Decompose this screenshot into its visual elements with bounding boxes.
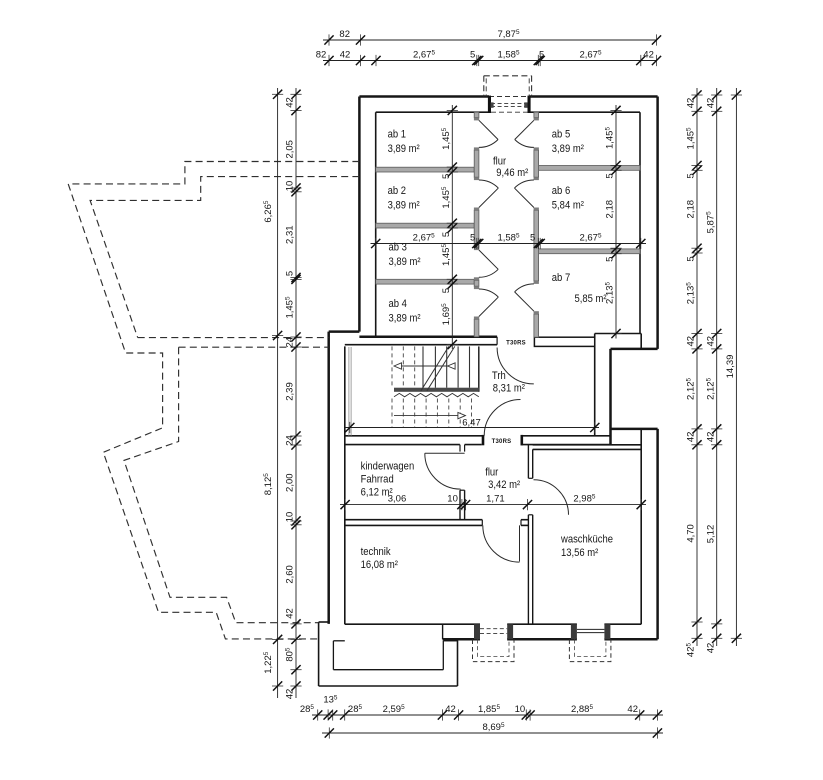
stairwell width dim line bbox=[346, 427, 600, 429]
svg-text:5: 5 bbox=[686, 173, 697, 178]
svg-text:1,585: 1,585 bbox=[497, 49, 520, 60]
wall ab1/ab2 bbox=[376, 167, 475, 172]
svg-text:3,89 m²: 3,89 m² bbox=[389, 256, 422, 268]
svg-text:5: 5 bbox=[441, 174, 452, 179]
door ab3 bbox=[479, 250, 498, 269]
notch on right side between ab7 and waschkueche bbox=[595, 333, 642, 335]
outer wall: upper block top, inner line bbox=[376, 111, 491, 113]
wall band: waschkueche top bbox=[533, 444, 642, 446]
svg-text:2,60: 2,60 bbox=[285, 565, 296, 584]
door arc: waschkueche bbox=[534, 480, 569, 515]
window opening 2 glazing lines bbox=[577, 628, 605, 630]
Trh stairwell right wall bbox=[594, 346, 596, 435]
svg-text:2,675: 2,675 bbox=[579, 232, 602, 243]
svg-text:2,885: 2,885 bbox=[571, 704, 594, 715]
entrance door jamb bars bbox=[488, 96, 491, 113]
svg-text:kinderwagen: kinderwagen bbox=[361, 461, 415, 473]
room label ab5 bbox=[552, 129, 571, 141]
svg-text:42: 42 bbox=[705, 336, 716, 347]
svg-text:285: 285 bbox=[348, 704, 363, 715]
dimension chain bottom detailed bbox=[300, 694, 663, 720]
svg-text:4,70: 4,70 bbox=[686, 524, 697, 543]
svg-text:805: 805 bbox=[285, 647, 296, 662]
svg-text:42: 42 bbox=[686, 432, 697, 443]
svg-text:42: 42 bbox=[643, 49, 654, 60]
svg-text:8,695: 8,695 bbox=[482, 722, 505, 733]
svg-text:42: 42 bbox=[686, 98, 697, 109]
corridor left wall segments bbox=[474, 112, 479, 117]
svg-text:5: 5 bbox=[539, 49, 544, 60]
svg-text:5,875: 5,875 bbox=[705, 211, 716, 234]
dimension chain right detailed bbox=[686, 88, 703, 657]
svg-text:8,125: 8,125 bbox=[263, 473, 274, 496]
corridor right wall segments bbox=[534, 112, 539, 117]
svg-text:42: 42 bbox=[686, 336, 697, 347]
dimension chain interior vertical right bbox=[605, 105, 622, 339]
outer wall: middle block left bbox=[327, 332, 330, 624]
door leaf+arc: kinderwagen bbox=[425, 452, 465, 454]
bottom outer wall: inner line bbox=[345, 623, 480, 625]
svg-text:3,89 m²: 3,89 m² bbox=[552, 143, 585, 155]
stair direction arrow down-flight bbox=[394, 415, 459, 417]
svg-text:3,89 m²: 3,89 m² bbox=[388, 200, 421, 212]
outer wall: upper block top, outer line with entrance opening bbox=[359, 95, 489, 98]
wall band: Trh top right part (outlined) bbox=[534, 337, 594, 346]
room label flur lower bbox=[485, 467, 499, 479]
svg-text:1,455: 1,455 bbox=[285, 296, 296, 319]
svg-text:3,89 m²: 3,89 m² bbox=[389, 313, 422, 325]
room label ab3 bbox=[389, 242, 408, 254]
dashed chimney shaft above entrance bbox=[484, 75, 532, 77]
svg-text:2,05: 2,05 bbox=[285, 140, 296, 159]
svg-text:5: 5 bbox=[470, 49, 475, 60]
step at stairwell top-left bbox=[329, 330, 360, 333]
svg-text:1,585: 1,585 bbox=[497, 232, 520, 243]
svg-text:42: 42 bbox=[445, 704, 456, 715]
svg-text:2,675: 2,675 bbox=[413, 232, 436, 243]
svg-text:1,455: 1,455 bbox=[686, 127, 697, 150]
svg-text:10: 10 bbox=[515, 704, 526, 715]
stoop / terrace outline bottom-left bbox=[319, 621, 329, 623]
window/door opening 1 (dashed) bbox=[480, 628, 507, 630]
svg-text:6,12 m²: 6,12 m² bbox=[361, 487, 394, 499]
outer wall: upper block right bbox=[656, 97, 659, 349]
svg-text:ab 4: ab 4 bbox=[389, 298, 408, 310]
svg-text:2,595: 2,595 bbox=[383, 704, 406, 715]
svg-text:5: 5 bbox=[605, 257, 616, 262]
svg-text:Fahrrad: Fahrrad bbox=[361, 474, 394, 486]
svg-text:ab 3: ab 3 bbox=[389, 242, 408, 254]
svg-text:13,56 m²: 13,56 m² bbox=[561, 548, 599, 560]
svg-text:5: 5 bbox=[470, 232, 475, 243]
svg-text:waschküche: waschküche bbox=[560, 534, 613, 546]
svg-text:5: 5 bbox=[441, 288, 452, 293]
dashed outline: inner face descent bbox=[124, 347, 319, 623]
svg-text:42: 42 bbox=[705, 432, 716, 443]
svg-text:42: 42 bbox=[627, 704, 638, 715]
room label ab1 bbox=[388, 129, 407, 141]
door ab2 bbox=[479, 188, 498, 207]
wall ab2/ab3 bbox=[376, 223, 475, 228]
room label kinderwagen bbox=[361, 461, 415, 473]
svg-text:10: 10 bbox=[447, 493, 458, 504]
door ab7 bbox=[515, 292, 534, 311]
dimension chain top detailed bbox=[316, 49, 661, 66]
dimension chain left detailed bbox=[285, 88, 302, 699]
svg-text:425: 425 bbox=[686, 642, 697, 657]
svg-text:82: 82 bbox=[316, 49, 327, 60]
stair upper flight solid treads bbox=[422, 346, 424, 387]
room label technik bbox=[361, 546, 392, 558]
door ab4 bbox=[479, 297, 498, 316]
svg-text:42: 42 bbox=[285, 97, 296, 108]
wall band: kinderwagen/technik bbox=[345, 519, 483, 521]
svg-text:42: 42 bbox=[705, 643, 716, 654]
svg-text:flur: flur bbox=[493, 156, 507, 168]
svg-text:2,675: 2,675 bbox=[413, 49, 436, 60]
svg-text:ab 6: ab 6 bbox=[552, 185, 571, 197]
svg-text:T30RS: T30RS bbox=[506, 340, 526, 346]
stair upper flight dashed treads bbox=[391, 346, 393, 387]
room label Trh bbox=[492, 370, 506, 382]
outer wall: upper block left bbox=[358, 97, 361, 332]
room label waschkueche bbox=[560, 534, 613, 546]
svg-text:1,455: 1,455 bbox=[441, 244, 452, 267]
svg-text:42: 42 bbox=[705, 98, 716, 109]
dimension chain left overall bbox=[263, 88, 283, 698]
stair cut diagonal pair bbox=[421, 346, 449, 390]
svg-text:24: 24 bbox=[285, 337, 296, 348]
room label flur upper bbox=[493, 156, 507, 168]
window jambs 1 bbox=[474, 624, 480, 639]
dimension chain lower rooms horizontal bbox=[340, 493, 646, 510]
room label ab7 bbox=[552, 272, 571, 284]
svg-text:5,85 m²: 5,85 m² bbox=[575, 293, 608, 305]
dashed outline lower storey, outer face bbox=[68, 162, 359, 639]
stair lower flight dashed treads bbox=[391, 399, 393, 428]
door arc: flur to Trh bbox=[497, 348, 534, 384]
svg-text:1,455: 1,455 bbox=[441, 186, 452, 209]
svg-text:2,135: 2,135 bbox=[686, 282, 697, 305]
svg-text:24: 24 bbox=[285, 435, 296, 446]
svg-text:1,855: 1,855 bbox=[478, 704, 501, 715]
window sill dashed rect 2 bbox=[569, 640, 611, 662]
svg-text:5,84 m²: 5,84 m² bbox=[552, 200, 585, 212]
svg-text:ab 2: ab 2 bbox=[388, 185, 407, 197]
svg-text:2,985: 2,985 bbox=[573, 493, 596, 504]
svg-text:2,18: 2,18 bbox=[686, 200, 697, 219]
svg-text:8,31 m²: 8,31 m² bbox=[493, 383, 526, 395]
dashed outline: notch horizontals to building bbox=[138, 337, 329, 339]
svg-text:2,125: 2,125 bbox=[705, 377, 716, 400]
svg-text:1,71: 1,71 bbox=[486, 493, 505, 504]
svg-text:ab 7: ab 7 bbox=[552, 272, 571, 284]
svg-text:14,39: 14,39 bbox=[725, 355, 736, 379]
svg-text:42: 42 bbox=[285, 608, 296, 619]
svg-text:2,125: 2,125 bbox=[686, 377, 697, 400]
svg-text:3,42 m²: 3,42 m² bbox=[488, 480, 521, 492]
room label ab6 bbox=[552, 185, 571, 197]
door ab6 bbox=[514, 188, 533, 207]
svg-text:2,39: 2,39 bbox=[285, 382, 296, 401]
dimension chain top overall bbox=[323, 29, 661, 46]
svg-text:2,18: 2,18 bbox=[605, 200, 616, 219]
stair landing edge band bbox=[394, 388, 479, 392]
dimension chain right middle bbox=[705, 88, 722, 653]
svg-text:9,46 m²: 9,46 m² bbox=[496, 167, 529, 179]
wall ab6/ab7 bbox=[539, 249, 640, 254]
svg-text:technik: technik bbox=[361, 546, 392, 558]
svg-text:5: 5 bbox=[605, 173, 616, 178]
window sill dashed rect 1 bbox=[473, 640, 515, 662]
svg-text:2,00: 2,00 bbox=[285, 473, 296, 492]
svg-text:1,225: 1,225 bbox=[263, 651, 274, 674]
dashed outline lower storey, inner face top bbox=[90, 177, 359, 338]
svg-text:1,455: 1,455 bbox=[605, 127, 616, 150]
stair direction arrow up-flight bbox=[402, 365, 448, 367]
svg-text:135: 135 bbox=[323, 694, 338, 705]
dimension chain bottom overall bbox=[322, 722, 663, 739]
svg-text:ab 5: ab 5 bbox=[552, 129, 571, 141]
svg-text:5: 5 bbox=[441, 232, 452, 237]
svg-text:ab 1: ab 1 bbox=[388, 129, 407, 141]
window jambs 2 bbox=[571, 624, 577, 639]
svg-text:5: 5 bbox=[530, 232, 535, 243]
svg-text:10: 10 bbox=[285, 181, 296, 192]
svg-text:42: 42 bbox=[285, 689, 296, 700]
stair spine wall right bbox=[478, 346, 480, 391]
bottom outer wall: outer line bbox=[443, 638, 480, 641]
entrance dashed door leaf lines bbox=[491, 103, 528, 105]
svg-text:42: 42 bbox=[340, 49, 351, 60]
svg-text:2,31: 2,31 bbox=[285, 225, 296, 244]
svg-text:flur: flur bbox=[485, 467, 499, 479]
svg-text:5: 5 bbox=[285, 271, 296, 276]
door arc: Trh lower door bbox=[484, 400, 520, 436]
svg-text:1,455: 1,455 bbox=[441, 127, 452, 150]
door ab1 bbox=[479, 120, 498, 139]
svg-text:16,08 m²: 16,08 m² bbox=[361, 560, 399, 572]
svg-text:6,265: 6,265 bbox=[263, 200, 274, 223]
dimension chain interior horizontal bbox=[371, 232, 647, 249]
svg-text:T30RS: T30RS bbox=[492, 439, 512, 445]
door ab5 bbox=[515, 120, 534, 139]
room label ab4 bbox=[389, 298, 408, 310]
svg-text:6,47: 6,47 bbox=[462, 417, 481, 428]
svg-text:5: 5 bbox=[686, 256, 697, 261]
door leaf+arc: technik bbox=[519, 525, 521, 561]
wall band: Trh top / ab4 bottom bbox=[359, 336, 497, 339]
door jamb blocks corridor bbox=[474, 118, 479, 121]
stair lining along left wall bbox=[348, 347, 350, 436]
svg-text:5,12: 5,12 bbox=[705, 525, 716, 544]
svg-text:285: 285 bbox=[300, 704, 315, 715]
dimension chain right overall bbox=[725, 88, 742, 646]
dimension chain interior vertical left bbox=[441, 105, 458, 349]
svg-text:7,875: 7,875 bbox=[497, 29, 520, 40]
wall ab3/ab4 bbox=[376, 279, 475, 284]
svg-text:Trh: Trh bbox=[492, 370, 506, 382]
wall: waschkueche left (corridor right) bbox=[527, 445, 529, 479]
svg-text:2,675: 2,675 bbox=[579, 49, 602, 60]
svg-text:3,89 m²: 3,89 m² bbox=[388, 143, 421, 155]
corridor top notch bbox=[459, 445, 461, 452]
svg-text:10: 10 bbox=[285, 512, 296, 523]
wall ab5/ab6 bbox=[539, 166, 640, 171]
stair break zigzag bbox=[394, 393, 479, 396]
wall: corridor left lower part bbox=[459, 490, 461, 520]
wall band: Trh bottom bbox=[345, 435, 484, 437]
room label ab2 bbox=[388, 185, 407, 197]
svg-text:82: 82 bbox=[339, 29, 350, 40]
svg-text:1,695: 1,695 bbox=[441, 303, 452, 326]
